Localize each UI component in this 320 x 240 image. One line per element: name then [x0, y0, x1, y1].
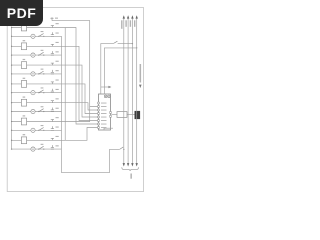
node X2 on U1 top — [108, 95, 111, 98]
switch S4 — [38, 87, 44, 93]
capacitor C0 — [50, 17, 58, 20]
switch S8 — [113, 41, 117, 43]
node junction L1-K6 — [11, 121, 12, 122]
capacitor C3a — [51, 61, 59, 65]
buzzer LS1 — [135, 111, 141, 119]
wire bus V2 — [127, 15, 129, 166]
relay coil K6 — [21, 115, 26, 125]
wire signal net 2 to U1 pin — [65, 46, 98, 120]
switch S6 — [38, 125, 44, 131]
wire S8 to bus V3 — [118, 43, 133, 45]
wire signal net 4 to U1 pin — [65, 84, 98, 114]
node junction V4 — [136, 47, 137, 48]
lamp M4 — [31, 91, 35, 95]
node net label V3 — [130, 20, 131, 27]
wire contact row 7 — [12, 148, 62, 150]
wire left supply bus L1 — [11, 27, 13, 150]
wire contact row 5 — [12, 111, 62, 113]
wire signal net 6 to U1 pin — [65, 107, 98, 122]
switch S7 — [38, 144, 44, 150]
pin 4 of U1 — [98, 113, 100, 115]
wire coil row 2 — [12, 45, 66, 47]
pin 6 of U1 — [98, 120, 100, 122]
relay coil K4 — [21, 78, 26, 88]
pin 5 of U1 — [98, 116, 100, 118]
wire coil row 6 — [12, 121, 66, 123]
node junction L1-M4 — [11, 92, 12, 93]
lamp M6 — [31, 128, 35, 132]
capacitor C1b — [51, 32, 59, 36]
wire coil row 1 — [12, 27, 66, 29]
PDF badge — [0, 0, 43, 26]
wire return loop — [62, 149, 120, 173]
op-amp U1 body — [99, 94, 111, 130]
node junction V3 — [132, 43, 133, 44]
node junction L1-M1 — [11, 36, 12, 37]
capacitor C5b — [51, 108, 59, 112]
lamp M1 — [31, 34, 35, 38]
node junction L1-K5 — [11, 102, 12, 103]
pin 10 of U1 — [110, 115, 112, 117]
switch S5 — [38, 106, 44, 112]
node junction L1-K1 — [11, 27, 12, 28]
node junction L1-M6 — [11, 130, 12, 131]
wire contact row 1 — [12, 35, 62, 37]
wire signal net 1 to U1 pin — [65, 28, 98, 125]
lamp M2 — [31, 53, 35, 57]
node junction L1-M3 — [11, 73, 12, 74]
wire signal net 5 to U1 pin — [65, 103, 98, 110]
pin 1 of U1 — [98, 102, 100, 104]
wire signal net 7 to U1 pin — [65, 128, 98, 141]
node net label V1 — [121, 20, 122, 29]
pin 2 of U1 — [98, 106, 100, 108]
relay coil K2 — [21, 40, 26, 50]
lamp M5 — [31, 109, 35, 113]
resistor R1 — [117, 112, 127, 118]
border frame — [7, 8, 143, 192]
capacitor C4a — [51, 80, 59, 84]
node net label W1 — [139, 64, 142, 88]
node connector brace J1 — [122, 167, 139, 171]
node junction L1-K3 — [11, 64, 12, 65]
node junction L1-K7 — [11, 140, 12, 141]
capacitor C2b — [51, 51, 59, 55]
node net label V2 — [125, 20, 126, 27]
wire coil row 3 — [12, 64, 66, 66]
pin 8 of U1 — [98, 127, 100, 129]
node junction L1-K2 — [11, 46, 12, 47]
wire U1 bottom stub — [104, 128, 113, 130]
wire collector bus N2 — [64, 28, 66, 141]
wire bus V3 — [131, 15, 133, 166]
switch S9 — [120, 147, 124, 149]
capacitor C7b — [51, 145, 59, 149]
wire contact row 3 — [12, 73, 62, 75]
node label J1 — [130, 174, 132, 179]
node junction L1-M7 — [11, 148, 12, 149]
value label U1 text — [101, 103, 107, 128]
node net label arrow A1 — [101, 86, 112, 89]
wire coil row 4 — [12, 83, 66, 85]
wire contact row 2 — [12, 54, 62, 56]
wire U1 to bus V4 — [104, 48, 136, 94]
wire U1 to bus V3 — [101, 44, 113, 94]
wire coil row 5 — [12, 102, 66, 104]
wire signal net 3 to U1 pin — [65, 65, 98, 117]
capacitor C6b — [51, 126, 59, 130]
switch S2 — [38, 50, 44, 56]
relay coil K7 — [21, 134, 26, 144]
pin 7 of U1 — [98, 123, 100, 125]
node X1 on U1 top — [104, 95, 107, 98]
capacitor C7a — [51, 136, 59, 140]
wire contact row 6 — [12, 129, 62, 131]
relay coil K1 — [21, 21, 26, 31]
capacitor C2a — [51, 42, 59, 46]
node junction L1-M5 — [11, 111, 12, 112]
wire bus V4 — [136, 15, 138, 166]
wire bus V1 — [123, 15, 125, 166]
switch S3 — [38, 69, 44, 75]
wire R1 to LS1 — [127, 114, 135, 116]
relay coil K5 — [21, 97, 26, 107]
switch S1 — [38, 31, 44, 37]
capacitor C5a — [51, 98, 59, 102]
node junction L1-K4 — [11, 83, 12, 84]
node junction V1-S9 — [123, 149, 124, 150]
wire U1 to R1 — [111, 114, 117, 116]
capacitor C1a — [51, 23, 59, 27]
relay coil K3 — [21, 59, 26, 69]
lamp M3 — [31, 72, 35, 76]
node junction L1-M2 — [11, 54, 12, 55]
wire coil row 7 — [12, 139, 66, 141]
capacitor C3b — [51, 70, 59, 74]
wire contact row 4 — [12, 92, 62, 94]
node net label V4 — [134, 20, 135, 27]
wire top net to U1 — [52, 21, 90, 107]
pin 9 of U1 — [110, 112, 112, 114]
capacitor C4b — [51, 89, 59, 93]
pin 3 of U1 — [98, 109, 100, 111]
wire collector bus N1 — [61, 36, 63, 149]
lamp M7 — [31, 147, 35, 151]
capacitor C6a — [51, 117, 59, 121]
